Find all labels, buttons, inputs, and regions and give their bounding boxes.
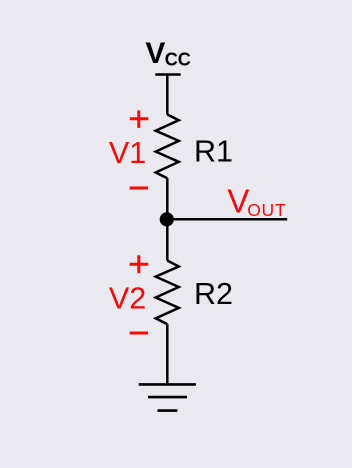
ground — [139, 384, 196, 410]
svg-text:V: V — [145, 37, 165, 70]
svg-text:V2: V2 — [109, 282, 146, 316]
wire R2 bottom to ground — [166, 324, 169, 385]
wire R1 bottom to node — [166, 178, 169, 260]
svg-text:CC: CC — [165, 50, 191, 70]
wire Vcc bar to R1 top — [166, 75, 169, 115]
svg-text:OUT: OUT — [247, 200, 286, 220]
net label Vout — [227, 183, 286, 220]
minus sign of V1 — [130, 187, 148, 190]
resistor R1 — [156, 115, 179, 179]
plus sign of V2 — [130, 255, 149, 273]
power rail bar Vcc — [155, 73, 180, 76]
plus sign of V1 — [130, 110, 149, 128]
svg-text:R1: R1 — [194, 135, 233, 169]
svg-text:V1: V1 — [109, 136, 146, 170]
svg-text:V: V — [227, 183, 249, 220]
minus sign of V2 — [130, 332, 148, 335]
node junction dot — [160, 212, 174, 226]
wire node to Vout — [167, 218, 287, 221]
power net Vcc label — [145, 37, 190, 70]
svg-text:R2: R2 — [194, 277, 233, 311]
resistor R2 — [156, 261, 179, 325]
